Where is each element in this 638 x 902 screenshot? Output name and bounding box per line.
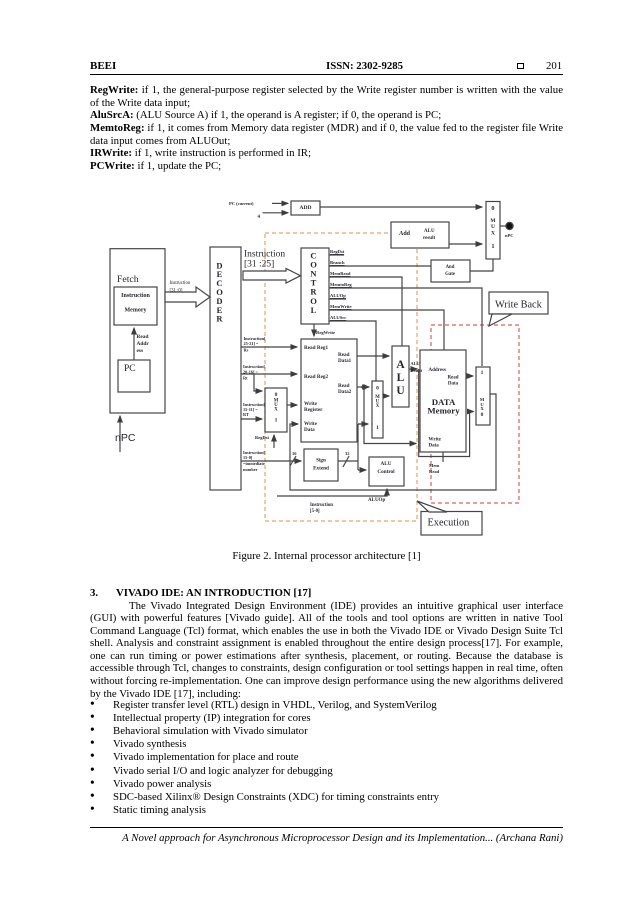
svg-text:R: R	[216, 314, 223, 324]
svg-text:X: X	[376, 404, 380, 409]
svg-text:Fetch: Fetch	[117, 274, 139, 285]
svg-text:[5-0]: [5-0]	[310, 509, 320, 514]
svg-text:ALU: ALU	[411, 361, 420, 366]
svg-text:16: 16	[292, 451, 297, 456]
svg-text:ALUOp: ALUOp	[368, 498, 385, 503]
svg-text:Extend: Extend	[313, 466, 329, 472]
svg-text:U: U	[396, 385, 405, 397]
svg-text:25-21] =: 25-21] =	[244, 341, 260, 346]
svg-text:ALUOp: ALUOp	[330, 293, 346, 298]
svg-text:Write Back: Write Back	[495, 300, 543, 311]
svg-text:ALU: ALU	[381, 461, 392, 467]
svg-text:1: 1	[376, 425, 379, 431]
svg-text:20-16] =: 20-16] =	[243, 370, 259, 375]
svg-text:Memory: Memory	[125, 307, 147, 313]
svg-text:[31 :0]: [31 :0]	[170, 289, 183, 294]
svg-text:1: 1	[481, 370, 484, 376]
svg-text:PC: PC	[124, 364, 136, 374]
svg-text:Data: Data	[429, 444, 440, 449]
svg-text:Result: Result	[411, 368, 423, 373]
svg-text:Memory: Memory	[427, 406, 460, 416]
svg-text:MemtoReg: MemtoReg	[330, 282, 352, 287]
svg-text:Data: Data	[304, 427, 315, 433]
svg-text:Read: Read	[429, 469, 440, 474]
svg-text:Instruction: Instruction	[310, 503, 333, 508]
svg-text:15-0]: 15-0]	[243, 455, 253, 460]
svg-text:RegDst: RegDst	[330, 249, 345, 254]
svg-text:Write: Write	[429, 438, 442, 443]
svg-text:Data2: Data2	[338, 389, 352, 395]
svg-text:RT: RT	[243, 412, 249, 417]
svg-text:ALUSrc: ALUSrc	[330, 315, 346, 320]
svg-text:A: A	[396, 359, 405, 371]
svg-text:Instruction[: Instruction[	[243, 364, 266, 369]
svg-text:Register: Register	[304, 407, 323, 413]
svg-text:ADD: ADD	[300, 205, 312, 211]
svg-text:PC (current): PC (current)	[229, 201, 254, 206]
svg-text:Instruction: Instruction	[170, 281, 191, 286]
svg-text:MemWrite: MemWrite	[330, 304, 352, 309]
svg-text:nPC: nPC	[115, 432, 136, 444]
svg-text:Read Reg2: Read Reg2	[304, 374, 328, 380]
svg-text:Rt: Rt	[243, 376, 248, 381]
svg-text:1: 1	[275, 418, 278, 424]
svg-text:Control: Control	[377, 469, 395, 475]
svg-text:MemRead: MemRead	[330, 271, 351, 276]
svg-text:[31 :25]: [31 :25]	[244, 260, 274, 270]
svg-text:X: X	[491, 231, 495, 237]
svg-text:0: 0	[275, 392, 278, 398]
svg-text:Add: Add	[399, 231, 411, 237]
svg-text:Execution: Execution	[428, 518, 470, 529]
svg-text:result: result	[423, 236, 435, 241]
svg-text:Read: Read	[137, 334, 149, 340]
svg-text:Read: Read	[447, 376, 458, 381]
svg-text:RegWrite: RegWrite	[316, 330, 335, 335]
svg-text:ess: ess	[137, 348, 144, 354]
svg-text:X: X	[274, 408, 278, 413]
svg-text:Data: Data	[448, 382, 459, 387]
svg-text:4: 4	[258, 215, 261, 220]
svg-text:Sign: Sign	[316, 458, 326, 464]
svg-text:RegDst: RegDst	[255, 435, 269, 440]
svg-text:Data1: Data1	[338, 358, 352, 364]
svg-text:L: L	[397, 372, 405, 384]
svg-text:1: 1	[491, 243, 494, 250]
svg-text:nPC: nPC	[505, 233, 514, 238]
svg-text:number: number	[243, 467, 258, 472]
svg-text:Instruction: Instruction	[244, 250, 285, 260]
svg-text:0: 0	[376, 386, 379, 392]
svg-text:Mem: Mem	[429, 463, 439, 468]
svg-text:=immediate: =immediate	[243, 461, 265, 466]
svg-text:Gate: Gate	[445, 272, 455, 277]
svg-text:And: And	[446, 265, 455, 270]
svg-text:Instruction: Instruction	[121, 293, 150, 299]
svg-text:0: 0	[481, 412, 484, 418]
svg-text:U: U	[491, 224, 495, 230]
svg-text:Read Reg1: Read Reg1	[304, 345, 328, 351]
svg-text:L: L	[311, 305, 317, 315]
svg-text:32: 32	[345, 451, 350, 456]
svg-text:Address: Address	[429, 368, 446, 373]
svg-text:ALU: ALU	[424, 229, 435, 234]
svg-text:Branch: Branch	[330, 260, 345, 265]
svg-text:0: 0	[491, 205, 494, 212]
svg-text:Addr: Addr	[137, 341, 150, 347]
svg-text:Rs: Rs	[244, 348, 249, 353]
